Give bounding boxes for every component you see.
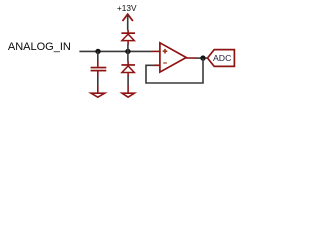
wire op-amp output — [196, 57, 207, 59]
wire diode D1 bottom lead — [127, 44, 129, 51]
power +13V arrow symbol — [123, 14, 133, 30]
ground arrow under diode D2 — [122, 85, 134, 97]
wire diode D2 bottom lead — [127, 76, 129, 85]
wire diode D2 top lead — [127, 51, 129, 61]
op-amp U1 — [152, 43, 196, 72]
junction at output — [200, 55, 205, 60]
ground arrow under capacitor — [91, 85, 105, 97]
capacitor C1 — [91, 61, 107, 77]
ADC port tag — [208, 50, 235, 67]
wire capacitor top lead — [97, 51, 99, 61]
svg-text:ANALOG_IN: ANALOG_IN — [8, 41, 71, 53]
junction at capacitor tap — [95, 49, 100, 54]
diode D1 upper clamp — [121, 30, 135, 45]
wire main horizontal — [79, 50, 152, 52]
wire feedback loop — [146, 58, 203, 83]
wire capacitor bottom lead — [97, 76, 99, 85]
svg-text:+13V: +13V — [117, 3, 137, 13]
diode D2 lower clamp — [121, 61, 135, 76]
junction at diode tap — [125, 49, 130, 54]
svg-text:ADC: ADC — [213, 53, 231, 63]
